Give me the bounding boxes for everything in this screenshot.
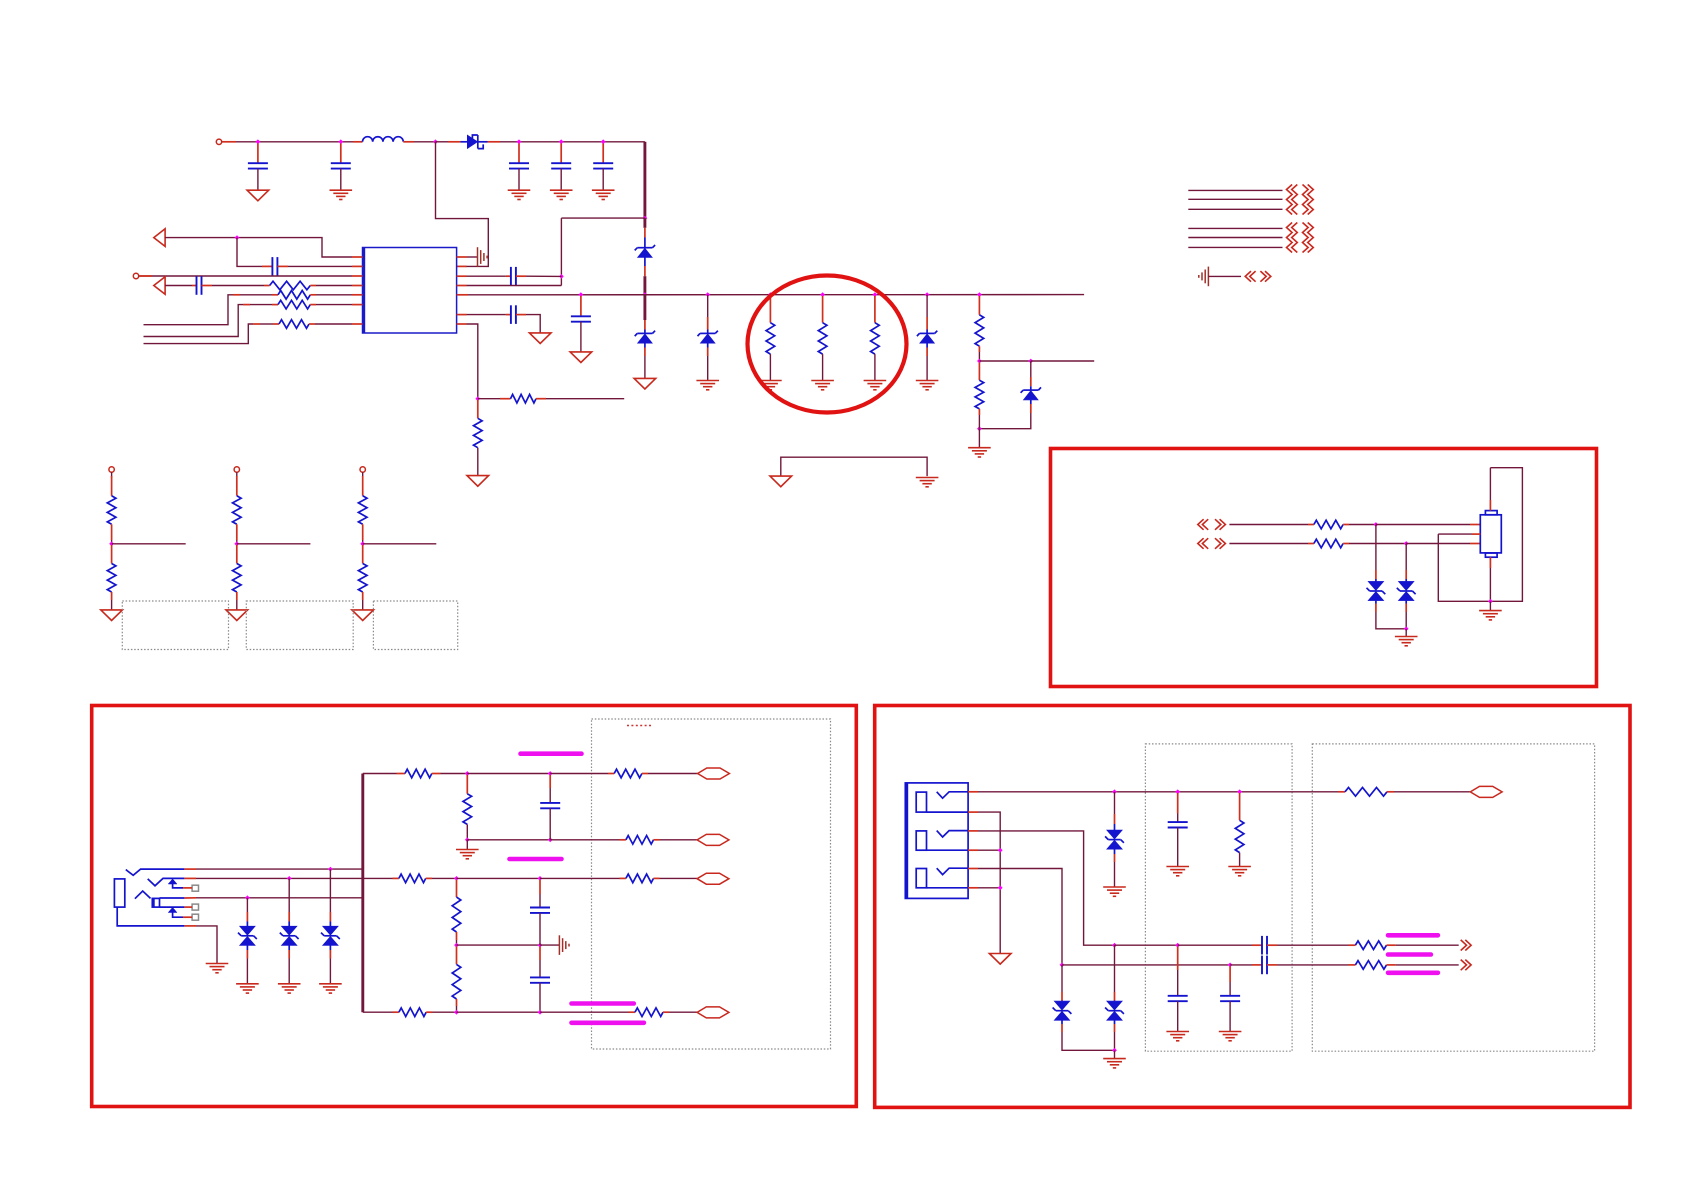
terminal: [109, 467, 114, 472]
pin lead: [352, 285, 363, 287]
pin lead: [1267, 964, 1277, 966]
resistor R21: [1345, 788, 1387, 797]
wire: [1489, 601, 1491, 610]
resistor: [871, 323, 880, 354]
junction: [454, 1010, 459, 1015]
pin lead: [253, 323, 260, 325]
pin lead: [426, 1011, 432, 1013]
resistor: [766, 323, 775, 354]
TVS diode D8: [1397, 581, 1416, 600]
junction: [977, 292, 982, 297]
connector J3: [1480, 511, 1501, 558]
ground: [330, 190, 353, 199]
pin lead: [516, 314, 526, 316]
wire: [1031, 360, 1094, 362]
resistor R8: [975, 380, 984, 409]
junction: [1404, 541, 1409, 546]
wire: [539, 913, 541, 945]
wire: [196, 926, 217, 964]
pin lead: [926, 317, 928, 330]
wire: [648, 773, 698, 775]
wire: [1114, 862, 1116, 887]
bus ripper: [1303, 185, 1314, 215]
wire: [1405, 612, 1407, 629]
pin lead: [516, 275, 526, 277]
ground: [1166, 867, 1189, 876]
resistor R15: [399, 874, 426, 883]
pin lead: [183, 887, 192, 889]
wire: [362, 540, 364, 544]
pin lead: [352, 294, 363, 296]
ground: [968, 448, 991, 457]
wire: [1115, 944, 1178, 946]
resistor: [233, 564, 242, 593]
resistor R19: [399, 1008, 426, 1017]
zener diode D3: [635, 331, 655, 344]
capacitor C10: [530, 977, 550, 982]
pin lead: [457, 294, 468, 296]
junction: [705, 292, 710, 297]
pin lead: [978, 346, 980, 352]
wire: [260, 323, 273, 325]
pin lead: [329, 950, 331, 959]
resistor R11: [405, 769, 432, 778]
pin lead: [1470, 524, 1480, 526]
wire: [363, 1011, 393, 1013]
solder pad: [192, 914, 198, 920]
wire: [1396, 964, 1459, 966]
net connector: [697, 1007, 729, 1018]
pin lead: [1252, 944, 1262, 946]
pin lead: [644, 266, 646, 276]
junction: [925, 292, 930, 297]
pin lead: [362, 524, 364, 540]
net stub: [1188, 227, 1282, 229]
wire: [316, 304, 352, 306]
pin lead: [488, 141, 501, 143]
wire: [1349, 524, 1376, 526]
pin lead: [393, 877, 399, 879]
wire: [250, 304, 272, 306]
pin lead: [352, 323, 363, 325]
junction: [109, 541, 114, 546]
net connector: [697, 834, 729, 845]
wire: [540, 877, 620, 879]
resistor R23: [1355, 961, 1386, 970]
ground: [226, 610, 248, 621]
pin lead: [707, 317, 709, 330]
pin lead: [629, 1011, 636, 1013]
wire: [549, 808, 551, 840]
TVS diode D7: [1367, 581, 1386, 600]
ground: [811, 381, 834, 390]
wire: [457, 877, 541, 879]
net stub: [1188, 237, 1282, 239]
wire: [707, 295, 709, 317]
pin lead: [1267, 944, 1277, 946]
wire: [144, 295, 234, 325]
pin lead: [192, 285, 197, 287]
junction: [1373, 522, 1378, 527]
pin lead: [457, 275, 467, 277]
schottky diode D1: [461, 135, 488, 149]
pin lead: [233, 294, 240, 296]
pin lead: [310, 285, 316, 287]
junction: [517, 139, 522, 144]
wire: [111, 540, 113, 544]
pin lead: [426, 877, 432, 879]
pin lead: [362, 592, 364, 600]
junction: [977, 359, 982, 364]
dotted box: [1145, 744, 1292, 1051]
wire: [316, 285, 352, 287]
wire: [1178, 944, 1252, 946]
wire: [669, 1011, 697, 1013]
pin lead: [288, 912, 290, 922]
pin lead: [822, 296, 824, 323]
net stub: [1188, 189, 1282, 191]
junction: [245, 895, 250, 900]
pin lead: [518, 144, 520, 164]
wire: [477, 448, 479, 476]
audio jack J4: [114, 869, 184, 926]
wire: [212, 285, 264, 287]
wire: [414, 141, 436, 143]
pin lead: [1489, 557, 1491, 568]
wire: [540, 1011, 629, 1013]
wire AVDD bus: [468, 294, 1084, 296]
wire: [111, 600, 113, 610]
resistor R24: [1235, 820, 1244, 852]
resistor R10: [1314, 539, 1343, 548]
wire: [1396, 944, 1459, 946]
wire: [518, 169, 520, 191]
pin lead: [393, 1011, 399, 1013]
resistor R2: [278, 291, 310, 300]
wire: [165, 285, 192, 287]
wire: [539, 960, 541, 977]
wire: [456, 940, 458, 945]
wire: [1489, 568, 1491, 601]
pin lead: [257, 144, 259, 164]
TVS diode D9: [1105, 830, 1124, 849]
off-page connector: [1198, 519, 1208, 530]
bus ripper: [1303, 223, 1314, 253]
capacitor C2: [331, 163, 351, 168]
junction: [1112, 789, 1117, 794]
bus ripper: [1287, 185, 1298, 215]
pin lead: [1489, 500, 1491, 511]
junction: [1060, 962, 1065, 967]
highlight box: [875, 706, 1630, 1108]
pin lead: [978, 296, 980, 315]
resistor: [358, 564, 367, 593]
wire: [978, 849, 1000, 851]
junction: [1404, 626, 1409, 631]
wire: [1277, 964, 1349, 966]
junction: [1228, 962, 1233, 967]
junction: [465, 837, 470, 842]
junction: [433, 139, 438, 144]
wire: [1239, 853, 1241, 867]
wire: [288, 878, 290, 912]
pin lead: [1349, 964, 1356, 966]
pin lead: [1114, 814, 1116, 824]
TVS diode: [238, 926, 257, 945]
pin lead: [184, 906, 192, 908]
wire: [560, 169, 562, 191]
junction: [559, 139, 564, 144]
resistor: [233, 496, 242, 525]
wire: [550, 839, 619, 841]
ground: [278, 984, 301, 993]
wire: [1405, 544, 1407, 571]
ground: [696, 381, 719, 390]
ground: [456, 850, 479, 859]
net connector: [698, 768, 730, 779]
off-page connector: [1198, 538, 1208, 549]
wire: [466, 824, 468, 839]
wire: [549, 788, 551, 803]
wire: [240, 294, 272, 296]
wire: [237, 543, 311, 545]
pin lead: [608, 773, 614, 775]
solder pad: [192, 885, 198, 891]
wire: [362, 600, 364, 610]
wire: [978, 415, 980, 429]
junction: [1112, 1048, 1117, 1053]
dotted mark: [627, 725, 652, 727]
pin lead: [273, 323, 279, 325]
pin lead: [457, 265, 467, 267]
wire audio trunk: [361, 774, 364, 1013]
wire: [1406, 543, 1470, 545]
pin lead: [288, 950, 290, 959]
junction: [820, 292, 825, 297]
ground: [247, 190, 269, 201]
ground: [864, 381, 887, 390]
pin lead: [309, 323, 315, 325]
pin lead: [362, 545, 364, 564]
wire: [660, 839, 698, 841]
highlight box: [92, 706, 857, 1107]
wire: [456, 1006, 458, 1012]
resistor R5: [511, 394, 537, 403]
junction: [977, 426, 982, 431]
pin lead: [663, 1011, 669, 1013]
zener diode D4: [698, 331, 718, 344]
wire: [1405, 629, 1407, 637]
pin lead: [620, 839, 626, 841]
terminal J2: [133, 273, 138, 278]
wire: [436, 142, 489, 267]
wire: [1062, 964, 1230, 966]
wire: [363, 543, 437, 545]
TVS diode D10: [1053, 1001, 1072, 1020]
wire: [1230, 964, 1252, 966]
resistor R22: [1355, 941, 1386, 950]
wire: [1114, 1050, 1116, 1058]
terminal: [234, 467, 239, 472]
highlight bar: [1388, 933, 1438, 938]
pin lead: [968, 887, 978, 889]
dotted box: [122, 601, 228, 650]
pin lead: [968, 849, 978, 851]
off-page connector: [1461, 960, 1471, 971]
ground: [916, 381, 939, 390]
junction: [234, 541, 239, 546]
pin lead: [1405, 570, 1407, 579]
pin lead: [183, 916, 192, 918]
pin lead: [1061, 992, 1063, 1001]
wire: [466, 840, 468, 850]
TVS diode D11: [1105, 1001, 1124, 1020]
wire: [1114, 945, 1116, 992]
IC U1: [363, 248, 457, 334]
pin lead: [644, 320, 646, 330]
wire: [644, 356, 646, 378]
junction: [538, 943, 543, 948]
wire: [539, 983, 541, 1012]
wire: [602, 169, 604, 191]
pin lead: [202, 285, 213, 287]
highlight bar: [572, 1020, 644, 1025]
pin lead: [654, 839, 660, 841]
junction: [454, 943, 459, 948]
pin lead: [968, 830, 978, 832]
wire: [822, 354, 824, 380]
junction: [454, 876, 459, 881]
pin lead: [456, 932, 458, 940]
wire: [363, 773, 397, 775]
capacitor C15: [1220, 996, 1240, 1001]
pin lead: [184, 897, 196, 899]
wire: [643, 218, 646, 228]
capacitor C6: [511, 305, 516, 324]
pin lead: [353, 141, 363, 143]
junction: [1175, 943, 1180, 948]
wire: [500, 141, 645, 143]
wire: [978, 429, 980, 448]
wire: [112, 543, 186, 545]
input port P1: [154, 229, 165, 247]
pin lead: [1338, 791, 1345, 793]
pin lead: [500, 398, 511, 400]
wire: [196, 897, 363, 899]
pin lead: [246, 950, 248, 959]
wire: [441, 773, 468, 775]
capacitor C14: [1168, 996, 1188, 1001]
pin lead: [1349, 944, 1356, 946]
wire: [540, 944, 559, 946]
pin lead: [272, 304, 278, 306]
highlight bar: [510, 857, 562, 862]
junction: [465, 771, 470, 776]
wire: [526, 275, 561, 277]
wire: [561, 217, 645, 219]
wire: [165, 238, 352, 257]
junction: [601, 139, 606, 144]
wire: [196, 868, 363, 870]
pin lead: [352, 256, 363, 258]
wire: [1490, 468, 1522, 602]
resistor R4: [279, 320, 309, 329]
TVS diode: [321, 926, 340, 945]
resistor R6: [474, 418, 483, 447]
wire: [1394, 791, 1470, 793]
capacitor: [509, 163, 529, 168]
wire: [643, 276, 646, 294]
highlight bar: [521, 751, 582, 756]
pin lead: [310, 304, 316, 306]
junction: [475, 396, 480, 401]
pin lead: [1387, 944, 1396, 946]
junction: [1488, 599, 1493, 604]
wire: [257, 169, 259, 191]
junction: [559, 274, 564, 279]
wire: [978, 791, 1338, 793]
wire: [457, 1011, 541, 1013]
pin lead: [644, 228, 646, 238]
wire: [978, 352, 980, 361]
ground: [508, 190, 531, 199]
pin lead: [1030, 377, 1032, 386]
wire: [546, 398, 624, 400]
pin lead: [1239, 793, 1241, 820]
pin lead: [432, 773, 441, 775]
wire: [362, 472, 364, 478]
pin lead: [403, 141, 414, 143]
pin lead: [1177, 793, 1179, 814]
ground: [352, 610, 374, 621]
wire: [1177, 970, 1179, 996]
wire: [978, 869, 1062, 965]
ground: [1103, 887, 1126, 896]
wire: [236, 540, 238, 544]
wire: [111, 472, 113, 478]
pin lead: [111, 524, 113, 540]
pin lead: [310, 294, 316, 296]
pin lead: [264, 285, 270, 287]
wire: [288, 959, 290, 984]
pin lead: [456, 999, 458, 1006]
ground: [550, 190, 573, 199]
wire: [707, 356, 709, 381]
pin lead: [397, 773, 406, 775]
pin lead: [1405, 604, 1407, 613]
wire: [1061, 965, 1063, 992]
capacitor C9: [530, 908, 550, 913]
wire: [550, 773, 608, 775]
wire: [1229, 524, 1308, 526]
pin lead: [111, 545, 113, 564]
resistor R17: [452, 897, 461, 932]
pin lead: [560, 144, 562, 164]
pin lead: [602, 144, 604, 164]
capacitor C4: [197, 276, 202, 295]
pin lead: [243, 304, 250, 306]
pin lead: [277, 265, 288, 267]
junction: [548, 837, 553, 842]
pin lead: [457, 314, 467, 316]
junction: [255, 139, 260, 144]
pin lead: [1387, 964, 1396, 966]
wire: [1375, 525, 1377, 571]
wire: [467, 285, 562, 287]
wire: [340, 169, 342, 191]
pin lead: [1375, 604, 1377, 613]
resistor R7: [975, 315, 984, 346]
